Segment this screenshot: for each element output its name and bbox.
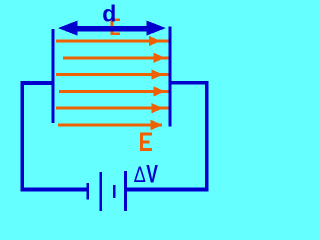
svg-text:d: d <box>102 0 116 26</box>
svg-text:Δ: Δ <box>134 164 146 188</box>
label d <box>102 0 116 26</box>
wire from right plate to battery (right branch) <box>126 81 209 192</box>
svg-text:V: V <box>146 159 158 188</box>
E-field arrow 3 <box>56 69 169 79</box>
battery B1 (two cells) <box>87 171 127 211</box>
E-field arrow 2 <box>63 53 169 63</box>
label E (bottom field label) <box>140 133 152 152</box>
wire from left plate to battery (left branch) <box>21 81 88 191</box>
E-field arrow 5 <box>56 103 169 113</box>
label E (top field label) <box>111 18 121 35</box>
E-field arrow 4 <box>59 86 169 96</box>
capacitor left plate <box>52 29 55 123</box>
E-field arrow 1 <box>56 36 169 46</box>
E-field arrow 6 <box>58 120 162 130</box>
dimension arrow d (plate separation) <box>58 21 166 36</box>
capacitor right plate <box>169 27 172 127</box>
label ΔV (battery voltage) <box>134 159 159 188</box>
